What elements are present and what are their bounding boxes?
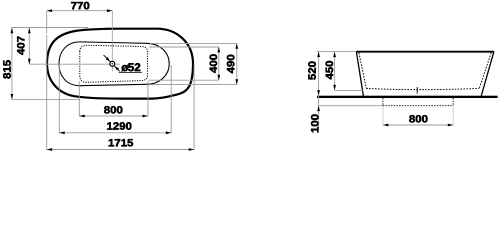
extension line tub floor bottom edge xyxy=(149,79,219,81)
floor line (side view) xyxy=(317,96,498,98)
text 520 xyxy=(308,61,316,79)
extension line rim level xyxy=(317,51,357,53)
rim top edge (side view) xyxy=(356,51,494,53)
outer wall left (side view) xyxy=(356,52,363,98)
dimension 407 xyxy=(28,28,30,64)
extension line bottom of oval xyxy=(11,99,80,101)
dimension 450 xyxy=(334,52,336,91)
dimension 400 xyxy=(218,47,220,80)
extension line left end of oval up to 770 xyxy=(46,11,48,34)
extension line oval right end xyxy=(193,65,195,150)
drain leader arrows xyxy=(106,57,111,62)
base plinth right edge (hidden) xyxy=(452,98,454,106)
drain leader line lower segment xyxy=(114,66,119,71)
outer wall right (side view) xyxy=(481,52,494,96)
text 490 xyxy=(227,55,235,74)
inner wall left (side view, hidden) xyxy=(359,53,366,89)
dimension 815 xyxy=(11,28,13,100)
extension line top of oval xyxy=(11,27,88,29)
extension line floor rect left xyxy=(78,81,80,116)
base plinth left edge (hidden) xyxy=(382,98,384,106)
tub inner bottom (side view, hidden) xyxy=(366,88,479,89)
drain centre dot xyxy=(112,63,113,64)
bathtub outer rim outline (top view) xyxy=(47,29,193,99)
drain mark (side view) xyxy=(416,87,418,94)
text 450 xyxy=(326,61,334,80)
extension line base left (dotted) xyxy=(382,106,384,126)
text 1290 xyxy=(107,122,131,129)
extension line floor rect right xyxy=(147,81,149,117)
text 407 xyxy=(17,37,25,55)
dimension 770 xyxy=(47,10,113,12)
extension line inner rim top edge xyxy=(150,42,237,44)
base plinth bottom edge (hidden) xyxy=(383,105,453,107)
dimension 800 (side view) xyxy=(383,124,453,126)
text 100 xyxy=(311,114,319,132)
extension line inner rim left xyxy=(58,65,60,133)
drain leader line upper segment xyxy=(104,55,111,62)
extension line oval left end xyxy=(46,35,48,150)
dimension 800 (top view) xyxy=(79,115,148,117)
extension line 407 to drain centreline xyxy=(29,63,120,65)
extension line inner rim bottom edge xyxy=(150,84,237,86)
text 800 top view xyxy=(104,106,122,113)
extension line inner rim right xyxy=(170,65,172,133)
text 800 side view xyxy=(409,115,427,122)
extension line base bottom xyxy=(319,105,383,107)
dimension 1715 xyxy=(47,149,194,151)
dimension 1290 xyxy=(59,132,171,134)
dimension 490 xyxy=(236,43,238,84)
text 1715 xyxy=(109,139,133,146)
bathtub inner rim edge (top view) xyxy=(59,42,169,86)
extension line tub floor top edge xyxy=(149,46,219,48)
dimension 520 with 100 below xyxy=(318,52,320,130)
text 400 xyxy=(210,54,218,73)
hidden tub floor outline 800x400 (top view, dashed) xyxy=(80,45,148,82)
label o52 underline xyxy=(119,72,142,74)
text 815 xyxy=(3,60,10,78)
extension line inner depth 450 xyxy=(335,90,364,92)
extension line base right (dotted) xyxy=(452,106,454,126)
inner wall right (side view, hidden) xyxy=(479,53,491,89)
text 770 xyxy=(71,2,89,9)
label o52 xyxy=(121,63,140,71)
extension line 770 to drain centreline xyxy=(111,11,113,71)
drain waste circle xyxy=(110,61,115,66)
